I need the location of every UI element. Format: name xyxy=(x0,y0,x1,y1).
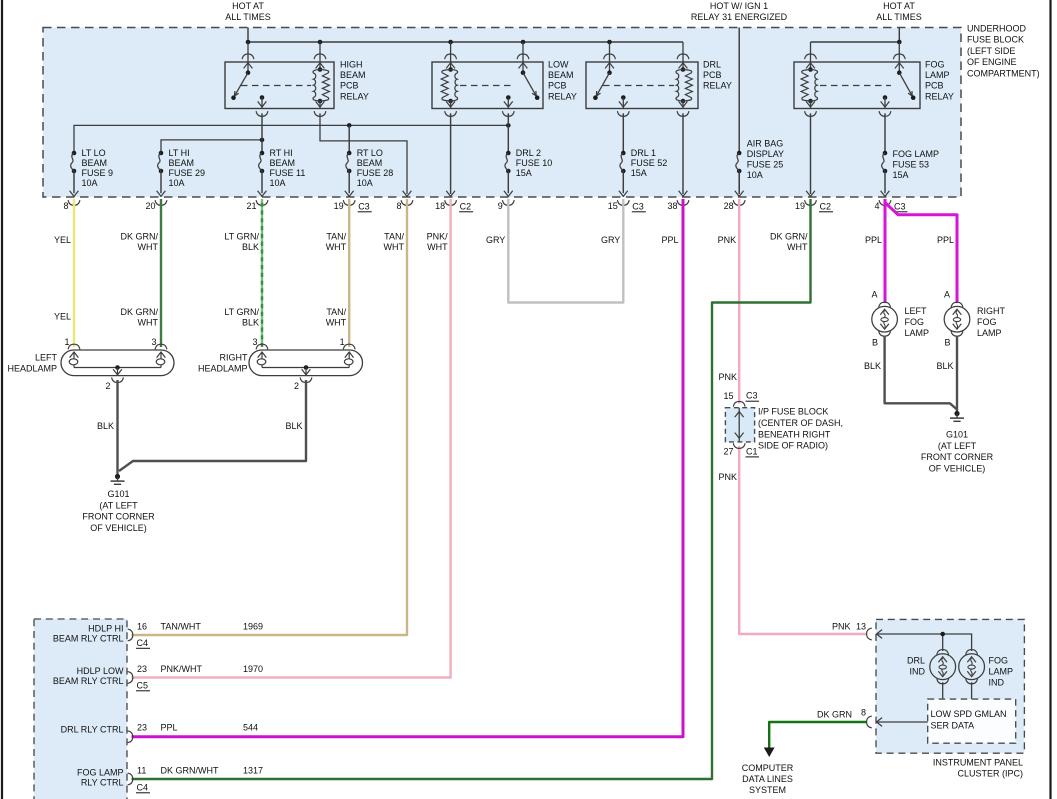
wire bus hot left xyxy=(248,41,683,43)
svg-text:1970: 1970 xyxy=(243,664,263,674)
svg-text:RLY CTRL: RLY CTRL xyxy=(81,777,124,787)
svg-text:G101: G101 xyxy=(107,489,129,499)
svg-text:BLK: BLK xyxy=(97,421,114,431)
svg-text:YEL: YEL xyxy=(54,312,71,322)
svg-text:RT LO: RT LO xyxy=(357,148,383,158)
label DK GRN/WHT xyxy=(120,232,158,253)
label fuse AIR BAG DISPLAY FUSE 25 xyxy=(747,139,784,181)
label YEL 2 xyxy=(54,312,71,322)
svg-text:9: 9 xyxy=(498,201,503,211)
svg-text:1317: 1317 xyxy=(243,766,263,776)
ip fuse block connector path xyxy=(733,401,745,448)
ip fuse block box xyxy=(725,408,754,442)
wire bus hot right xyxy=(811,40,902,45)
svg-text:BLK: BLK xyxy=(242,317,259,327)
ipc connector DK GRN 8 xyxy=(817,707,882,728)
svg-text:15: 15 xyxy=(608,201,618,211)
label RIGHT FOG LAMP xyxy=(977,306,1006,338)
fuse FOG LAMP FUSE 53 xyxy=(881,151,890,197)
svg-text:TAN/: TAN/ xyxy=(326,232,346,242)
svg-text:B: B xyxy=(944,338,950,348)
svg-text:LT GRN/: LT GRN/ xyxy=(224,307,259,317)
relay U3 DRL PCB coil xyxy=(676,42,692,116)
label PNK/WHT xyxy=(427,232,449,253)
svg-text:G101: G101 xyxy=(946,430,968,440)
svg-text:10A: 10A xyxy=(357,178,373,188)
gmlan dashed box xyxy=(928,699,1016,743)
connector row FOG LAMP RLY CTRL xyxy=(128,773,133,785)
svg-text:I/P FUSE BLOCK: I/P FUSE BLOCK xyxy=(758,407,828,417)
relay U2 LOW BEAM PCB box xyxy=(432,62,543,109)
wire DK GRN/WHT pin 20 to left headlamp xyxy=(160,199,162,347)
svg-text:PNK/: PNK/ xyxy=(427,232,449,242)
wire low coil to pin 18 xyxy=(450,113,452,194)
svg-text:TAN/WHT: TAN/WHT xyxy=(161,622,202,632)
label LOW SPD GMLAN SER DATA xyxy=(931,709,1007,731)
wire BLK right fog lamp xyxy=(956,336,958,412)
svg-text:C3: C3 xyxy=(632,201,644,211)
label COMPUTER DATA LINES SYSTEM xyxy=(742,763,794,795)
svg-text:CLUSTER (IPC): CLUSTER (IPC) xyxy=(957,769,1023,779)
wire BLK left headlamp to ground xyxy=(116,380,118,474)
label pin 23 PNK/WHT 1970 xyxy=(136,664,263,691)
wire line A to RT LO fuse xyxy=(348,125,350,153)
label pin A left xyxy=(871,290,877,300)
svg-text:15: 15 xyxy=(723,391,733,401)
label pins RIGHT HEADLAMP xyxy=(252,337,344,347)
pin 4 C3 connector xyxy=(874,200,907,212)
label DRL IND xyxy=(907,656,926,677)
svg-text:YEL: YEL xyxy=(54,235,71,245)
relay U3 DRL PCB box xyxy=(586,62,698,109)
wire ipc lamp feed xyxy=(877,632,972,651)
svg-text:3: 3 xyxy=(151,337,156,347)
svg-text:BEAM RLY CTRL: BEAM RLY CTRL xyxy=(53,676,124,686)
label relay U1 HIGH BEAM PCB xyxy=(340,60,369,102)
svg-text:A: A xyxy=(944,290,950,300)
svg-text:PCB: PCB xyxy=(703,70,722,80)
svg-text:HEADLAMP: HEADLAMP xyxy=(198,364,248,374)
svg-text:BLK: BLK xyxy=(936,361,953,371)
svg-text:3: 3 xyxy=(252,337,257,347)
svg-text:10A: 10A xyxy=(82,178,98,188)
label TAN/WHT 2 xyxy=(384,232,405,253)
pin 18 C2 connector xyxy=(435,200,473,212)
svg-text:2: 2 xyxy=(105,381,110,391)
svg-text:DK GRN: DK GRN xyxy=(817,709,852,719)
svg-text:PPL: PPL xyxy=(937,235,954,245)
wire PNK ip fuse block to ipc xyxy=(739,446,866,634)
svg-text:OF VEHICLE): OF VEHICLE) xyxy=(90,523,147,533)
pin exit chevrons xyxy=(403,191,815,197)
svg-text:DRL 2: DRL 2 xyxy=(516,148,541,158)
svg-text:(LEFT SIDE: (LEFT SIDE xyxy=(967,46,1015,56)
svg-text:IND: IND xyxy=(989,678,1005,688)
connector row DRL RLY CTRL xyxy=(128,731,133,743)
svg-text:COMPUTER: COMPUTER xyxy=(742,763,794,773)
page border left xyxy=(1,0,3,799)
label fuse LT LO BEAM FUSE 9 xyxy=(82,148,114,188)
wire drl sw out to DRL1 fuse xyxy=(622,113,624,153)
svg-text:18: 18 xyxy=(435,201,445,211)
wire lamps to gmlan box xyxy=(943,682,972,699)
svg-text:LAMP: LAMP xyxy=(989,667,1014,677)
indicator lamp DRL IND xyxy=(930,650,956,684)
svg-text:FOG: FOG xyxy=(905,317,925,327)
label GRY right xyxy=(601,235,620,245)
svg-text:11: 11 xyxy=(137,766,146,776)
relay U2 LOW BEAM PCB coil xyxy=(441,42,457,116)
headlamp LEFT HEADLAMP terminal right xyxy=(155,344,167,367)
label TAN/WHT 2nd xyxy=(326,307,347,328)
wire GRY loop pin 9 to pin 15 xyxy=(508,199,623,303)
svg-text:WHT: WHT xyxy=(138,317,159,327)
feed HOT AT ALL TIMES left xyxy=(225,1,271,22)
fuse RT HI BEAM FUSE 11 xyxy=(258,151,267,197)
relay U1 HIGH BEAM PCB box xyxy=(225,62,334,109)
wire ser data link xyxy=(877,721,928,723)
svg-text:DATA LINES: DATA LINES xyxy=(742,774,793,784)
relay U4 FOG LAMP PCB switch xyxy=(879,42,915,116)
svg-text:HOT AT: HOT AT xyxy=(883,1,915,11)
svg-text:TAN/: TAN/ xyxy=(384,232,404,242)
svg-text:BEAM: BEAM xyxy=(270,158,296,168)
wire DK GRN to computer data lines xyxy=(769,722,866,748)
svg-text:FOG: FOG xyxy=(989,656,1009,666)
svg-text:DK GRN/: DK GRN/ xyxy=(120,307,158,317)
label DRL RLY CTRL xyxy=(61,725,124,735)
label HDLP LOW BEAM RLY CTRL xyxy=(53,666,124,686)
svg-text:PPL: PPL xyxy=(161,723,178,733)
svg-text:WHT: WHT xyxy=(427,242,448,252)
fuse RT LO BEAM FUSE 28 xyxy=(345,151,354,197)
wire TAN/WHT 1969 pin 8 to hdlp hi rly ctrl xyxy=(132,199,408,635)
pin 38 connector xyxy=(667,200,688,211)
wire PPL branch to right fog lamp xyxy=(885,203,957,304)
svg-text:LT GRN/: LT GRN/ xyxy=(224,232,259,242)
fuse DRL 2 FUSE 10 xyxy=(504,151,513,197)
svg-text:FOG LAMP: FOG LAMP xyxy=(77,768,124,778)
pin 8 connector xyxy=(63,200,79,211)
svg-text:1969: 1969 xyxy=(243,622,263,632)
svg-text:SYSTEM: SYSTEM xyxy=(749,785,786,795)
svg-text:PPL: PPL xyxy=(661,235,678,245)
svg-text:DRL RLY CTRL: DRL RLY CTRL xyxy=(61,725,124,735)
indicator lamp FOG LAMP IND xyxy=(959,650,985,684)
svg-text:DRL: DRL xyxy=(907,656,925,666)
svg-text:FUSE 28: FUSE 28 xyxy=(357,168,394,178)
label underhood fuse block xyxy=(967,24,1040,79)
wire high sw out to RT HI fuse xyxy=(261,113,263,153)
svg-text:38: 38 xyxy=(667,201,677,211)
node bus junctions xyxy=(246,40,612,45)
wire feed stub left xyxy=(247,28,249,43)
headlamp RIGHT HEADLAMP terminal left xyxy=(256,344,268,367)
svg-text:(AT LEFT: (AT LEFT xyxy=(938,441,977,451)
svg-text:BENEATH RIGHT: BENEATH RIGHT xyxy=(758,429,831,439)
svg-text:RELAY 31 ENERGIZED: RELAY 31 ENERGIZED xyxy=(691,12,788,22)
svg-text:LT HI: LT HI xyxy=(169,148,190,158)
underhood fuse block dashed box xyxy=(43,28,961,198)
wire PPL 544 pin 38 to drl rly ctrl xyxy=(132,199,684,737)
svg-text:HOT W/ IGN 1: HOT W/ IGN 1 xyxy=(710,1,768,11)
label ip pins 15 C3 27 C1 xyxy=(723,391,759,457)
svg-text:4: 4 xyxy=(874,201,879,211)
wire PNK/WHT 1970 pin 18 to hdlp low rly ctrl xyxy=(132,199,451,678)
connector row HDLP LOW BEAM RLY CTRL xyxy=(128,672,133,684)
svg-text:B: B xyxy=(872,338,878,348)
svg-text:10A: 10A xyxy=(270,178,286,188)
svg-text:DRL: DRL xyxy=(703,60,721,70)
svg-text:OF VEHICLE): OF VEHICLE) xyxy=(929,463,986,473)
arrow computer data lines xyxy=(764,748,775,758)
svg-text:RIGHT: RIGHT xyxy=(977,306,1006,316)
svg-text:SER DATA: SER DATA xyxy=(931,721,975,731)
svg-text:1: 1 xyxy=(64,337,69,347)
headlamp LEFT HEADLAMP output pin 2 xyxy=(105,365,123,391)
ground G101 fog lamps xyxy=(921,411,994,474)
svg-text:WHT: WHT xyxy=(326,242,347,252)
fuse AIR BAG DISPLAY FUSE 25 xyxy=(735,151,744,197)
svg-text:23: 23 xyxy=(137,723,147,733)
label BLK right headlamp xyxy=(285,421,302,431)
svg-text:BLK: BLK xyxy=(242,242,259,252)
svg-text:RELAY: RELAY xyxy=(925,91,954,101)
node line A junction RT LO xyxy=(347,123,352,128)
label PPL left fog xyxy=(865,235,882,245)
svg-text:BEAM RLY CTRL: BEAM RLY CTRL xyxy=(53,633,124,643)
svg-text:19: 19 xyxy=(795,201,805,211)
svg-text:(AT LEFT: (AT LEFT xyxy=(99,500,138,510)
wire ign feed to air bag fuse xyxy=(738,28,740,154)
label PPL 38 xyxy=(661,235,678,245)
svg-text:28: 28 xyxy=(724,201,734,211)
wire BLK right headlamp to ground xyxy=(119,380,306,471)
svg-text:INSTRUMENT PANEL: INSTRUMENT PANEL xyxy=(933,758,1023,768)
svg-text:BEAM: BEAM xyxy=(548,70,574,80)
feed HOT AT ALL TIMES right xyxy=(876,1,922,22)
svg-text:2: 2 xyxy=(294,381,299,391)
headlamp RIGHT HEADLAMP terminal right xyxy=(343,344,355,367)
wire DK GRN/WHT 1317 pin 19 to fog lamp rly ctrl xyxy=(132,199,811,779)
svg-text:8: 8 xyxy=(861,707,866,717)
svg-text:PCB: PCB xyxy=(340,81,359,91)
label FOG LAMP RLY CTRL xyxy=(77,768,124,788)
label pins LEFT HEADLAMP xyxy=(64,337,156,347)
label pin 16 TAN/WHT 1969 xyxy=(136,622,263,649)
headlamp RIGHT HEADLAMP body xyxy=(249,350,363,376)
label pin 11 DK GRN/WHT 1317 xyxy=(136,766,263,793)
pin 20 connector xyxy=(145,200,166,211)
svg-text:IND: IND xyxy=(910,667,926,677)
svg-text:C4: C4 xyxy=(137,782,149,792)
wire BLK left fog lamp xyxy=(885,336,957,410)
svg-text:1: 1 xyxy=(340,337,345,347)
svg-text:C2: C2 xyxy=(820,201,832,211)
svg-text:WHT: WHT xyxy=(326,317,347,327)
svg-text:LAMP: LAMP xyxy=(905,328,930,338)
wire feed stub right xyxy=(898,28,900,43)
fog lamp right xyxy=(944,302,970,336)
svg-text:13: 13 xyxy=(856,621,866,631)
fuse LT HI BEAM FUSE 29 xyxy=(157,151,166,197)
svg-text:8: 8 xyxy=(396,201,401,211)
svg-text:C2: C2 xyxy=(460,201,472,211)
svg-text:C5: C5 xyxy=(137,680,149,690)
svg-text:FUSE 10: FUSE 10 xyxy=(516,158,553,168)
svg-text:RELAY: RELAY xyxy=(703,81,732,91)
svg-text:8: 8 xyxy=(63,201,68,211)
svg-text:PNK: PNK xyxy=(718,472,737,482)
svg-text:19: 19 xyxy=(334,201,344,211)
svg-text:PPL: PPL xyxy=(865,235,882,245)
svg-text:GRY: GRY xyxy=(601,235,620,245)
label pin A right xyxy=(944,290,950,300)
pin 21 connector xyxy=(246,200,267,211)
svg-text:LT LO: LT LO xyxy=(82,148,106,158)
svg-text:15A: 15A xyxy=(631,168,647,178)
ground G101 headlamps xyxy=(82,474,155,533)
label relay U2 LOW BEAM PCB xyxy=(548,60,577,102)
svg-text:20: 20 xyxy=(145,201,155,211)
label LEFT FOG LAMP xyxy=(905,306,930,338)
label pin B right xyxy=(944,338,950,348)
svg-text:27: 27 xyxy=(723,447,733,457)
svg-text:BLK: BLK xyxy=(864,361,881,371)
svg-text:C3: C3 xyxy=(358,201,370,211)
svg-text:C3: C3 xyxy=(894,201,906,211)
svg-text:HOT AT: HOT AT xyxy=(232,1,264,11)
page border right xyxy=(1049,0,1051,799)
wire fog coil to pin 19 xyxy=(810,113,812,194)
fog lamp left xyxy=(872,302,898,336)
wire PPL pin 4 to left fog lamp xyxy=(884,199,887,303)
svg-text:15A: 15A xyxy=(893,170,909,180)
label YEL xyxy=(54,235,71,245)
pin 15 C3 connector xyxy=(608,200,646,212)
relay U4 FOG LAMP PCB box xyxy=(794,62,920,109)
svg-text:DK GRN/WHT: DK GRN/WHT xyxy=(161,766,219,776)
svg-text:SIDE OF RADIO): SIDE OF RADIO) xyxy=(758,441,828,451)
relay U3 DRL PCB switch xyxy=(593,42,629,116)
label ip fuse block xyxy=(758,407,843,451)
svg-text:PCB: PCB xyxy=(925,81,944,91)
node line B junction xyxy=(260,138,265,143)
label relay U3 DRL PCB xyxy=(703,60,732,91)
relay U2 LOW BEAM PCB switch xyxy=(502,42,539,116)
label BLK left fog xyxy=(864,361,881,371)
label PNK below xyxy=(718,472,737,482)
svg-text:C1: C1 xyxy=(746,446,758,456)
relay U1 HIGH BEAM PCB coil xyxy=(313,42,329,116)
svg-text:C3: C3 xyxy=(746,391,758,401)
svg-text:DISPLAY: DISPLAY xyxy=(747,149,784,159)
svg-text:BEAM: BEAM xyxy=(82,158,108,168)
label pin B left xyxy=(872,338,878,348)
label fuse RT LO BEAM FUSE 28 xyxy=(357,148,394,188)
relay U4 FOG LAMP PCB coil xyxy=(801,42,817,116)
connector row HDLP HI BEAM RLY CTRL xyxy=(128,629,133,641)
wire fog sw out to fuse 53 xyxy=(884,113,886,153)
svg-text:DK GRN/: DK GRN/ xyxy=(120,232,158,242)
svg-text:23: 23 xyxy=(137,664,147,674)
svg-text:LEFT: LEFT xyxy=(905,306,928,316)
svg-text:FOG LAMP: FOG LAMP xyxy=(893,149,940,159)
wire drl coil to pin 38 xyxy=(682,113,684,194)
label fuse FOG LAMP FUSE 53 xyxy=(893,149,940,180)
svg-text:LAMP: LAMP xyxy=(977,328,1002,338)
svg-text:UNDERHOOD: UNDERHOOD xyxy=(967,24,1027,34)
svg-text:FUSE 25: FUSE 25 xyxy=(747,160,784,170)
svg-text:15A: 15A xyxy=(516,168,532,178)
relay U1 HIGH BEAM PCB switch xyxy=(231,42,268,116)
svg-text:BEAM: BEAM xyxy=(357,158,383,168)
svg-text:HEADLAMP: HEADLAMP xyxy=(7,364,57,374)
wire air bag fuse to pin 28 xyxy=(738,171,740,194)
label relay U4 FOG LAMP PCB xyxy=(925,60,954,102)
svg-text:RELAY: RELAY xyxy=(548,91,577,101)
wire high-beam feed (line B) xyxy=(161,140,262,153)
label fuse DRL 2 FUSE 10 xyxy=(516,148,553,178)
wire high coil to pin 8 jog xyxy=(320,113,407,194)
svg-text:FRONT CORNER: FRONT CORNER xyxy=(921,452,994,462)
svg-text:WHT: WHT xyxy=(787,242,808,252)
label PNK 28 xyxy=(718,235,737,245)
svg-text:GRY: GRY xyxy=(486,235,505,245)
svg-text:FUSE 11: FUSE 11 xyxy=(270,168,306,178)
label GRY left xyxy=(486,235,505,245)
label PNK above xyxy=(718,372,737,382)
svg-text:544: 544 xyxy=(243,723,258,733)
label HDLP HI BEAM RLY CTRL xyxy=(53,624,124,644)
label BLK right fog xyxy=(936,361,953,371)
svg-text:COMPARTMENT): COMPARTMENT) xyxy=(967,68,1040,78)
label LT GRN/BLK xyxy=(224,232,259,253)
svg-text:PCB: PCB xyxy=(548,81,567,91)
svg-text:AIR BAG: AIR BAG xyxy=(747,139,784,149)
wire LT GRN/BLK pin 21 to right headlamp xyxy=(261,199,263,347)
svg-text:21: 21 xyxy=(246,201,256,211)
svg-text:FUSE BLOCK: FUSE BLOCK xyxy=(967,35,1024,45)
svg-text:BEAM: BEAM xyxy=(340,70,366,80)
svg-text:HDLP LOW: HDLP LOW xyxy=(77,666,124,676)
svg-text:ALL TIMES: ALL TIMES xyxy=(876,12,922,22)
label BLK left headlamp xyxy=(97,421,114,431)
svg-text:RIGHT: RIGHT xyxy=(220,353,249,363)
pin 19 C3 connector xyxy=(334,200,372,212)
pin 19 C2 connector xyxy=(795,200,833,212)
svg-text:ALL TIMES: ALL TIMES xyxy=(225,12,271,22)
svg-text:TAN/: TAN/ xyxy=(326,307,346,317)
label pin 23 PPL 544 xyxy=(137,723,258,733)
label DK GRN/WHT 2nd xyxy=(120,307,158,328)
svg-text:LAMP: LAMP xyxy=(925,70,950,80)
svg-text:HIGH: HIGH xyxy=(340,60,363,70)
svg-text:PNK: PNK xyxy=(718,235,737,245)
fuse DRL 1 FUSE 52 xyxy=(619,151,628,197)
wire low sw out to DRL2 fuse xyxy=(507,113,509,153)
wire YEL pin 8 to left headlamp xyxy=(73,199,75,347)
feed HOT W IGN 1 RELAY 31 ENERGIZED xyxy=(691,1,788,22)
headlamp RIGHT HEADLAMP output pin 2 xyxy=(294,365,312,391)
svg-text:PNK: PNK xyxy=(832,621,851,631)
label headlamp LEFT HEADLAMP xyxy=(7,353,57,374)
svg-text:FUSE 53: FUSE 53 xyxy=(893,160,930,170)
svg-text:10A: 10A xyxy=(169,178,185,188)
label fuse RT HI BEAM FUSE 11 xyxy=(270,148,306,188)
fuse LT LO BEAM FUSE 9 xyxy=(70,151,79,197)
svg-text:DK GRN/: DK GRN/ xyxy=(770,232,808,242)
